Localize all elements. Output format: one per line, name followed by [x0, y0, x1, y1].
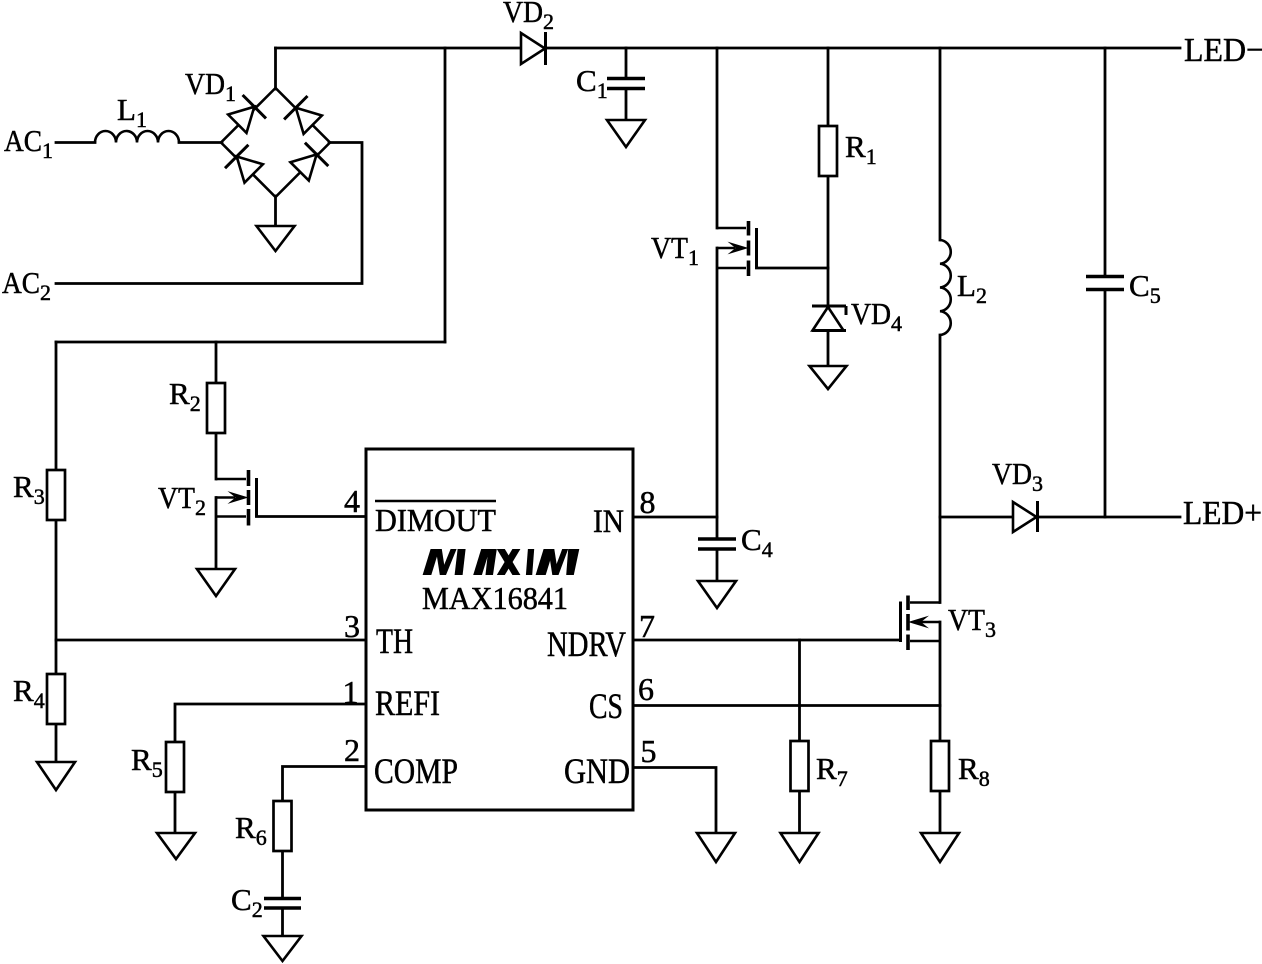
ground below C4: [698, 581, 736, 608]
svg-text:3: 3: [344, 608, 360, 644]
resistor R4: [47, 674, 65, 724]
wire R4 to ground: [55, 724, 58, 762]
wire CS pin 6 line: [633, 704, 940, 707]
bridge diode top-right: [284, 96, 322, 134]
svg-text:TH: TH: [376, 621, 413, 661]
svg-text:MAX16841: MAX16841: [422, 580, 568, 616]
capacitor C1: [607, 79, 645, 89]
bridge diode bottom-right: [290, 143, 328, 181]
capacitor C5: [1086, 277, 1124, 290]
resistor R3: [47, 470, 65, 520]
wire horizontal bus y=342: [56, 341, 445, 344]
resistor R6: [274, 801, 292, 851]
wire top rail to R1: [827, 48, 830, 126]
diode VD2: [521, 32, 546, 65]
svg-text:2: 2: [344, 732, 360, 768]
resistor R8: [931, 741, 949, 791]
wire VT3 source to CS and R8: [939, 622, 942, 742]
inductor L1: [95, 131, 179, 143]
ground below bridge: [257, 226, 295, 251]
wire L1 to bridge left corner: [179, 141, 222, 144]
wire R7 to ground: [798, 791, 801, 833]
ground below VT2: [197, 569, 235, 596]
wire VT2 gate to pin 4 DIMOUT: [257, 515, 367, 518]
wire NDRV node to R7 crossing CS: [798, 640, 801, 742]
wire VD4 anode to ground: [827, 331, 830, 366]
wire top rail to L2: [939, 48, 942, 240]
svg-text:REFI: REFI: [375, 683, 440, 723]
resistor R7: [791, 741, 809, 791]
ground below R8: [921, 833, 959, 862]
svg-text:5: 5: [641, 733, 657, 769]
wire LED+ node to VD3 anode: [940, 516, 1013, 519]
wire R5 to ground: [174, 792, 177, 833]
svg-text:NDRV: NDRV: [547, 624, 626, 664]
wire R8 to ground: [939, 791, 942, 833]
svg-text:DIMOUT: DIMOUT: [375, 502, 496, 538]
zener diode VD4: [812, 306, 846, 331]
node AC1 lead wire: [56, 141, 95, 144]
svg-text:8: 8: [640, 484, 656, 520]
inductor L2: [940, 240, 951, 335]
wire bridge top stem: [274, 48, 277, 89]
wire VT1 source down to IN node and C4: [716, 248, 719, 538]
wire C1 stem upper: [625, 48, 628, 77]
pin name DIMOUT with overline: [375, 500, 496, 503]
capacitor C4: [698, 539, 736, 549]
svg-text:IN: IN: [593, 504, 624, 540]
bridge diode top-left: [228, 95, 266, 133]
bridge diode bottom-left: [225, 145, 263, 183]
transistor VT2: [216, 470, 257, 526]
svg-text:7: 7: [639, 608, 655, 644]
wire GND pin 5 to ground: [633, 768, 716, 834]
wire TH pin 3 line: [56, 639, 366, 642]
wire IN pin 8 line: [633, 516, 717, 519]
svg-text:6: 6: [638, 671, 654, 707]
capacitor C2: [264, 899, 301, 909]
ground below VD4: [810, 366, 847, 389]
wire C4 to ground: [716, 551, 719, 582]
svg-text:CS: CS: [589, 686, 623, 726]
wire L2 to VT3 drain through LED+ node: [939, 335, 942, 603]
wire R6 to C2: [281, 851, 284, 897]
diode VD3: [1013, 501, 1038, 532]
wire C1 to ground: [625, 90, 628, 120]
svg-text:4: 4: [344, 483, 360, 519]
wire bridge right corner to AC2: [56, 143, 362, 284]
MAXIM logo: [423, 549, 580, 575]
transistor VT3: [901, 596, 941, 651]
ground below C1: [607, 120, 645, 147]
wire VD3 cathode to LED+: [1037, 516, 1180, 519]
IC U1 MAX16841 box: [366, 449, 633, 810]
wire top rail from bridge to LED-: [276, 47, 1181, 50]
wire x=56 down to R3: [55, 342, 58, 471]
wire C2 to ground: [281, 910, 284, 936]
wire VT2 source to ground: [215, 498, 218, 570]
wire REFI pin 1 to R5: [175, 704, 366, 743]
wire R2 to VT2 drain: [215, 432, 218, 479]
wire bridge bottom stem: [274, 196, 277, 226]
ground below C2: [264, 936, 302, 961]
svg-text:LED−: LED−: [1184, 32, 1262, 69]
svg-text:GND: GND: [564, 751, 630, 791]
ground below R4: [37, 762, 75, 790]
svg-text:1: 1: [343, 674, 359, 710]
wire R3 to R4 crossing TH: [55, 520, 58, 675]
resistor R1: [819, 126, 837, 176]
wire bus to R2: [215, 342, 218, 383]
wire R1 to VD4 crossing VT1 gate node: [827, 175, 830, 305]
resistor R5: [166, 742, 184, 792]
svg-text:COMP: COMP: [374, 751, 458, 791]
wire NDRV pin 7 to VT3 gate: [633, 639, 901, 642]
wire COMP pin 2 to R6: [283, 767, 367, 803]
ground pin 5 GND: [697, 833, 735, 862]
diode bridge VD1 frame: [221, 88, 330, 197]
svg-text:LED+: LED+: [1183, 495, 1262, 532]
transistor VT1: [717, 221, 757, 276]
wire C5 lower to LED+ rail: [1104, 291, 1107, 517]
ground below R5: [157, 833, 195, 859]
wire top rail to VT1 drain: [716, 48, 719, 228]
wire drop from top rail at x=445: [444, 48, 447, 342]
wire VT1 gate to R1/VD4 node: [757, 267, 829, 270]
wire C5 stem upper: [1104, 48, 1107, 276]
ground below R7: [781, 833, 819, 862]
resistor R2: [207, 383, 225, 433]
